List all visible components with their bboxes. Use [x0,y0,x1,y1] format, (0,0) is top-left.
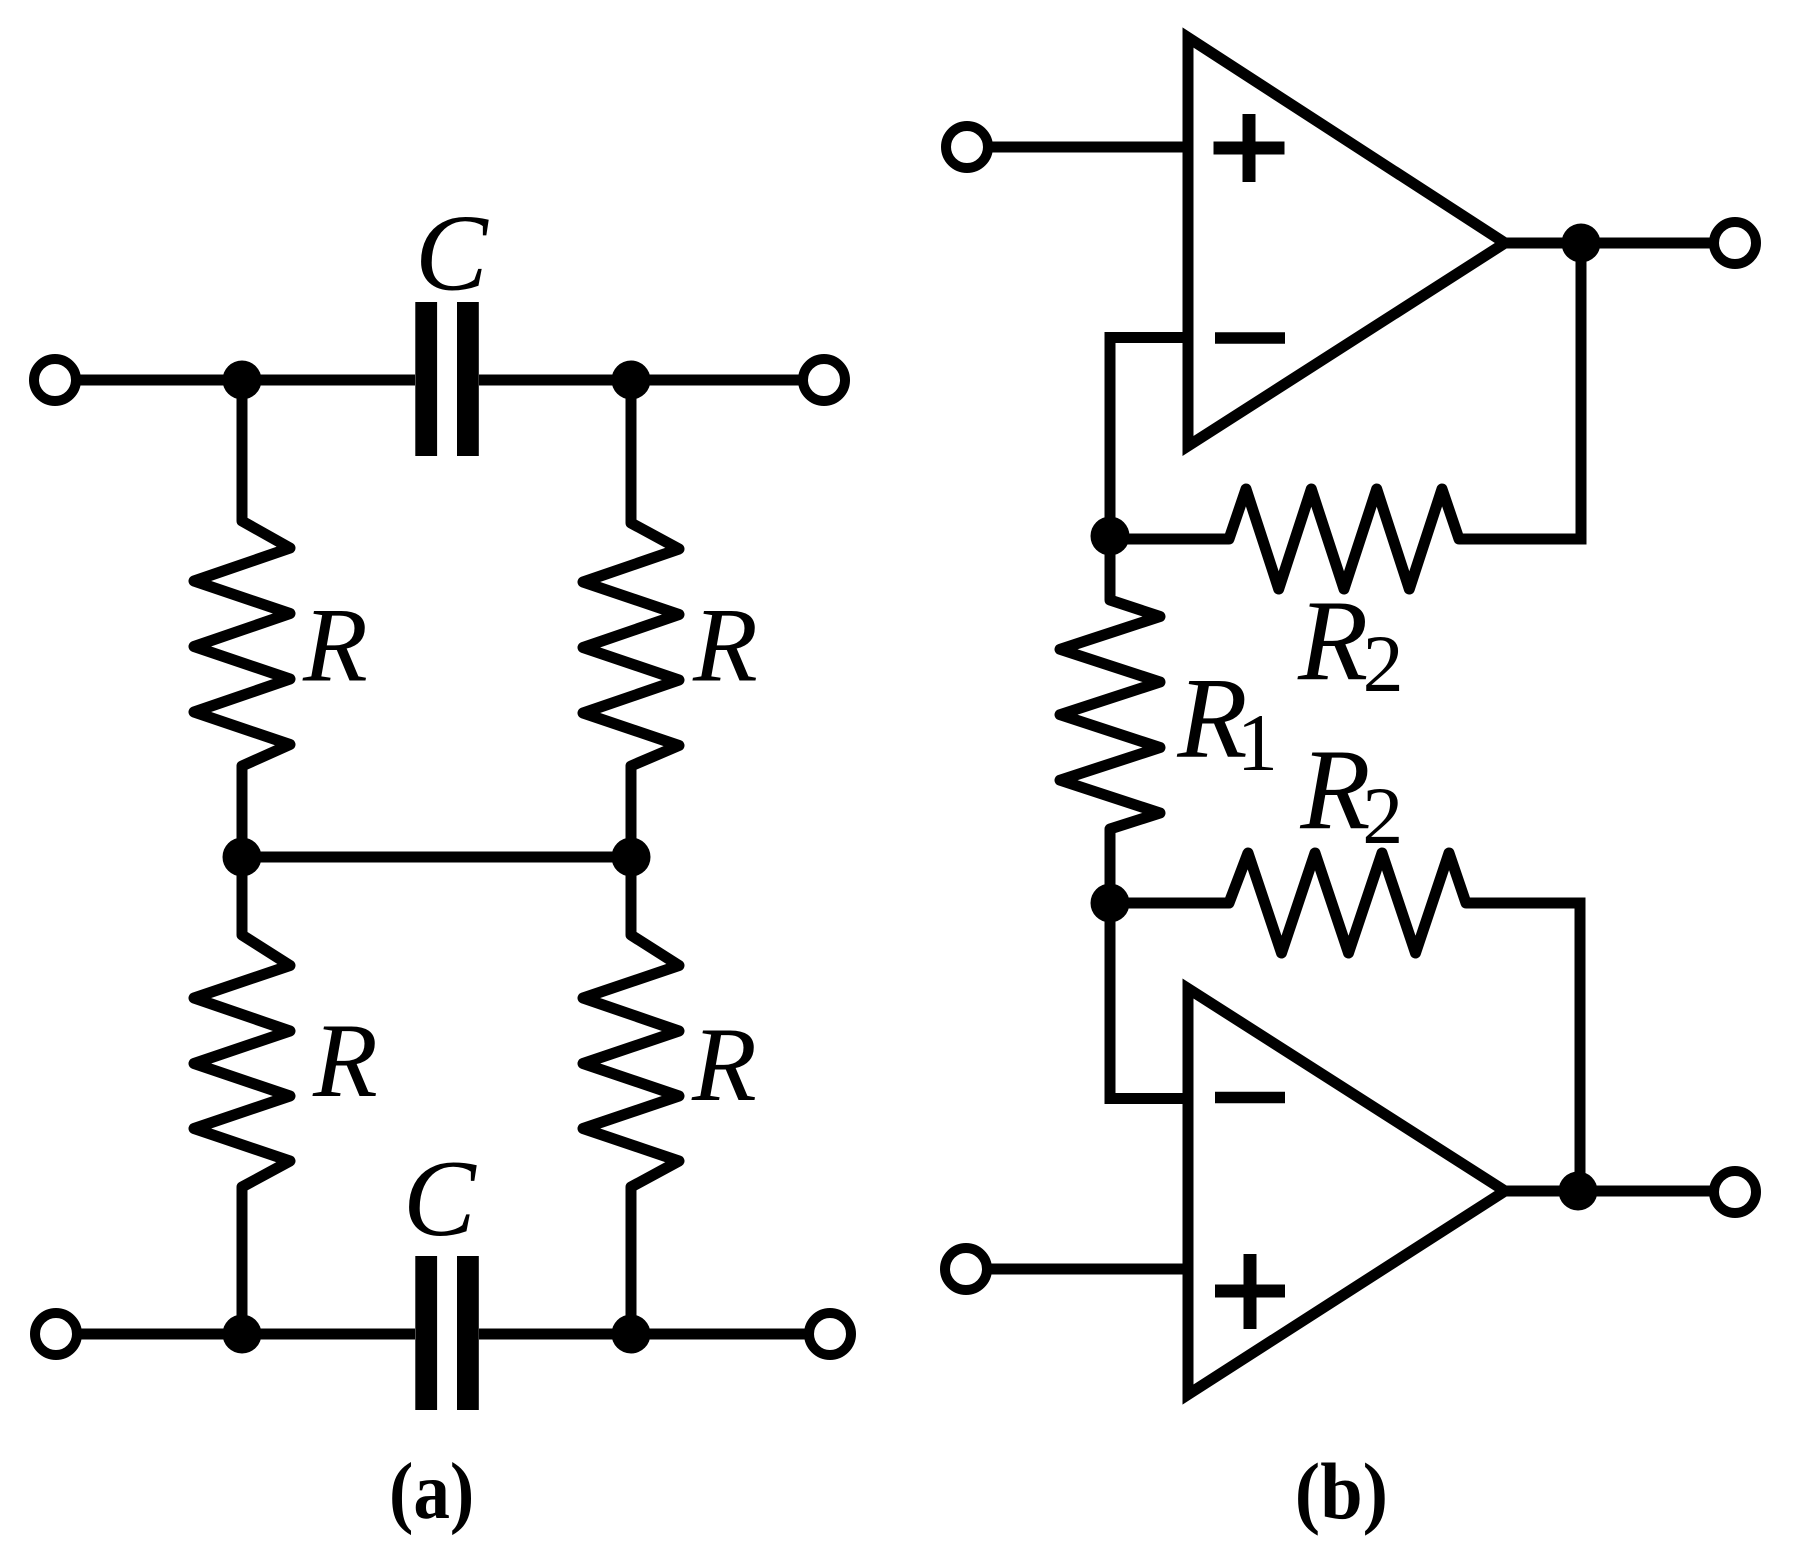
terminal T5 (input + of U1) [946,126,988,168]
svg-text:R: R [692,587,758,704]
wire R3a to node E [237,1187,248,1334]
value label R2 (top) [1297,577,1404,709]
node F (bottom-right junction) [612,1315,651,1354]
wire U1 - input stub [1110,338,1188,537]
wire node D down to R4a [626,857,637,935]
svg-text:R: R [312,1002,378,1119]
svg-text:2: 2 [1362,770,1403,861]
wire R4a to node F [626,1187,637,1334]
terminal T6 (output of U1) [1714,222,1756,264]
svg-text:R: R [1299,726,1370,853]
wire node H down to feedback rail [1459,243,1581,539]
wire node C down to R3a [237,857,248,935]
capacitor C (top) [415,302,479,456]
resistor R2 (bottom feedback) [1214,853,1481,953]
node H (U1 output junction) [1562,224,1601,263]
op-amp U2 (bottom) [1188,989,1505,1395]
node J (U2 output junction) [1559,1172,1598,1211]
node I (inverting input junction of U2) [1091,884,1130,923]
svg-text:1: 1 [1237,697,1278,788]
wire node I to R2 bottom [1110,898,1229,909]
svg-text:(b): (b) [1295,1447,1388,1536]
terminal T3 (input bottom-left) [35,1313,77,1355]
resistor R1 [1060,585,1160,845]
capacitor C (bottom) [415,1256,479,1410]
wire node B down to R2a [626,380,637,523]
value label R2 (bottom) [1299,726,1403,861]
svg-text:R: R [691,1006,757,1123]
svg-text:2: 2 [1363,618,1404,709]
wire top rail right: capacitor to T2 [479,375,803,386]
terminal T7 (input + of U2) [945,1248,987,1290]
svg-text:(a): (a) [389,1447,474,1536]
wire U2 output to terminal T8 [1505,1186,1712,1197]
node B (top-right junction) [612,361,651,400]
op-amp U2 plus input marker [1215,1254,1285,1329]
wire U1 output to terminal T6 [1505,238,1712,249]
resistor R (top-left) [194,500,290,790]
terminal T8 (output of U2) [1714,1171,1756,1213]
wire T7 to U2 + input [987,1264,1188,1275]
svg-text:R: R [1297,577,1368,704]
svg-text:C: C [403,1138,477,1259]
wire R1 bottom to node I and on to U2 - stub [1110,829,1188,1099]
terminal T2 (output top-right) [803,359,845,401]
wire node G down to R1 [1105,536,1116,600]
op-amp U1 (top) [1188,38,1505,447]
svg-text:C: C [415,193,489,314]
wire bottom rail right: capacitor to T4 [479,1329,809,1340]
svg-text:R: R [302,587,368,704]
resistor R (bottom-left) [194,915,290,1210]
wire node A down to R1a [237,380,248,521]
wire bottom rail left: T3 to capacitor C left plate [77,1329,415,1340]
node E (bottom-left junction) [223,1315,262,1354]
node A (top-left junction) [223,361,262,400]
resistor R2 (top feedback) [1214,489,1474,589]
resistor R (bottom-right) [583,915,679,1210]
wire T5 to U1 + input [988,142,1188,153]
wire R2a to node D [626,766,637,857]
terminal T1 (input top-left) [34,359,76,401]
resistor R (top-right) [583,500,679,790]
wire node G to R2 [1110,534,1229,545]
node G (inverting input junction of U1) [1091,517,1130,556]
wire R1a to node C [237,766,248,857]
op-amp U1 minus input marker [1215,332,1285,344]
node C (middle-left junction) [223,838,262,877]
op-amp U2 minus input marker [1215,1092,1285,1104]
wire feedback rail right segment (bottom) [1466,903,1580,1191]
wire top rail left: T1 to capacitor C left plate [76,375,415,386]
terminal T4 (output bottom-right) [809,1313,851,1355]
node D (middle-right junction) [612,838,651,877]
op-amp U1 plus input marker [1214,114,1285,182]
wire middle rail: node C to node D [242,852,631,863]
value label R1 [1176,655,1278,788]
